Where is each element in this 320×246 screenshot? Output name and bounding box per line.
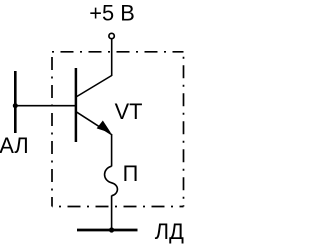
transistor VT <box>76 68 112 142</box>
box bottom edge <box>52 206 184 208</box>
terminal (open circle) <box>109 33 114 38</box>
fuse element П (wavy break) <box>105 166 118 196</box>
emitter arrowhead <box>98 121 110 132</box>
wire: emitter down to fuse <box>111 134 113 166</box>
box right edge <box>183 52 185 207</box>
dash-dot enclosure box <box>52 52 184 207</box>
box top edge <box>52 51 184 53</box>
bus line ЛД (bottom horizontal bar) <box>77 229 138 232</box>
junction dot on ЛД <box>109 227 114 232</box>
bus line АЛ (left vertical bar) <box>14 71 17 133</box>
svg-text:АЛ: АЛ <box>0 133 29 158</box>
wire: fuse down to ЛД bus <box>111 196 113 231</box>
base wire <box>15 105 75 107</box>
wire: terminal to collector <box>111 39 113 76</box>
svg-text:+5 В: +5 В <box>89 1 134 26</box>
emitter stroke <box>76 112 112 135</box>
svg-text:ЛД: ЛД <box>155 219 184 244</box>
collector stroke <box>76 76 112 98</box>
box left edge <box>51 52 53 207</box>
junction dot on АЛ <box>13 103 18 108</box>
svg-text:П: П <box>123 161 139 186</box>
svg-text:VT: VT <box>115 99 143 124</box>
base bar <box>75 68 78 142</box>
